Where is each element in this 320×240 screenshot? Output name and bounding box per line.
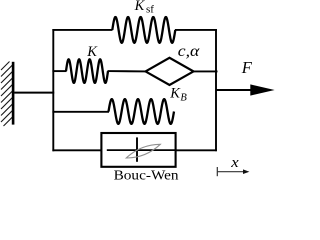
svg-text:K: K [169, 86, 181, 102]
wire K branch stub [52, 70, 66, 72]
displacement axis tick [216, 167, 218, 176]
Bouc-Wen box [101, 133, 175, 167]
svg-text:x: x [230, 155, 239, 171]
force arrow F head [250, 84, 274, 95]
spring Ksf [112, 17, 175, 43]
displacement axis head [243, 169, 249, 174]
svg-text:K: K [86, 44, 98, 60]
damper diamond c,alpha [146, 58, 194, 85]
wall bar [12, 62, 15, 125]
wire top branch right [175, 29, 217, 31]
force arrow F line [217, 89, 253, 91]
svg-text:B: B [180, 93, 187, 104]
Bouc-Wen hysteresis loop [126, 144, 160, 158]
Bouc-Wen interior vertical line [136, 137, 138, 161]
wire right bus [215, 29, 217, 151]
spring K [66, 59, 108, 83]
svg-text:F: F [241, 58, 253, 77]
displacement axis line [217, 171, 243, 173]
svg-text:c,α: c,α [178, 43, 200, 60]
wire bottom branch left [52, 149, 101, 151]
wire K to damper [108, 70, 147, 72]
wire box to bus [176, 149, 217, 151]
wire wall rod [14, 92, 54, 94]
wire left bus [52, 29, 54, 151]
wire KB branch stub [52, 111, 109, 113]
wire top branch left [52, 29, 112, 31]
wire damper to bus [193, 70, 218, 72]
wall hatch [1, 62, 12, 127]
svg-text:Bouc-Wen: Bouc-Wen [114, 168, 179, 182]
svg-text:K: K [134, 0, 146, 14]
Bouc-Wen interior horizontal line [107, 149, 175, 151]
svg-text:sf: sf [146, 3, 154, 15]
spring KB [109, 99, 175, 124]
